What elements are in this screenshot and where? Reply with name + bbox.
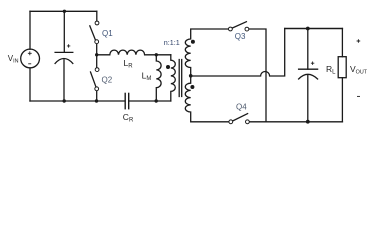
- switch Q1 blade: [90, 26, 95, 40]
- switch Q3 blade: [232, 22, 246, 28]
- svg-text:Q4: Q4: [236, 103, 247, 112]
- transformer secondary upper winding: [185, 29, 230, 76]
- polarity dot secondary lower: [190, 85, 194, 89]
- wire bottom rail left of Cr: [30, 100, 125, 102]
- capacitor Cin curved plate: [55, 59, 73, 64]
- wire Q2 bottom lead: [96, 91, 98, 101]
- transformer secondary lower winding: [185, 76, 230, 122]
- wire RL bottom lead: [341, 78, 343, 122]
- symbol Vout minus: [357, 95, 360, 97]
- inductor LM: [156, 55, 161, 101]
- svg-text:LM: LM: [142, 71, 152, 83]
- terminal Q4 left: [229, 120, 233, 124]
- svg-text:RL: RL: [326, 64, 336, 76]
- terminal Q1 bottom: [95, 40, 99, 44]
- wire Vin bottom lead: [29, 68, 31, 101]
- resistor RL box: [338, 57, 346, 78]
- terminal Q4 right: [246, 120, 250, 124]
- wire Q3 output down to bottom rail: [249, 29, 266, 122]
- transformer core: [179, 60, 182, 97]
- node Q1-Q2 / LR junction: [95, 53, 98, 56]
- symbol Vin minus: [28, 63, 31, 65]
- symbol Vout plus: [357, 39, 361, 43]
- symbol input cap plus: [67, 44, 70, 47]
- node LR / LM / primary top: [155, 53, 158, 56]
- node top rail / input cap: [63, 10, 66, 13]
- wire output top rail: [285, 28, 343, 30]
- wire Q1 top stub: [96, 11, 98, 21]
- wire top rail: [30, 10, 97, 12]
- wire input cap bottom lead: [63, 60, 65, 101]
- svg-text:CR: CR: [123, 112, 134, 124]
- capacitor CR right plate: [128, 93, 130, 108]
- wire Q1 to mid junction: [96, 44, 98, 68]
- svg-text:Q3: Q3: [235, 32, 246, 41]
- inductor LR: [97, 50, 171, 55]
- wire center tap with hop over Q3 drop: [191, 29, 285, 77]
- svg-text:LR: LR: [124, 58, 134, 70]
- terminal Q3 left: [229, 27, 233, 31]
- source Vin: [21, 49, 40, 68]
- polarity dot primary: [166, 65, 170, 69]
- wire bottom rail right of Cr: [129, 100, 171, 102]
- symbol Vin plus: [28, 51, 32, 55]
- node bottom rail / LM: [155, 99, 158, 102]
- switch Q4 blade: [233, 114, 248, 121]
- wire output cap top lead: [307, 29, 309, 70]
- wire Q4 output to load: [249, 121, 342, 123]
- svg-text:Q1: Q1: [102, 29, 113, 38]
- node bottom rail / input cap: [62, 99, 65, 102]
- capacitor CR left plate: [124, 93, 126, 108]
- svg-text:Q2: Q2: [102, 76, 113, 85]
- transformer primary winding: [171, 55, 176, 101]
- node output rail / cap bottom: [306, 120, 310, 124]
- svg-text:VOUT: VOUT: [350, 64, 368, 75]
- node bottom rail / Q2: [95, 99, 98, 102]
- wire output cap bottom lead: [307, 76, 309, 122]
- node secondary center tap: [189, 74, 193, 78]
- wire input cap top lead: [63, 11, 65, 52]
- switch Q2 blade: [91, 72, 97, 87]
- terminal Q3 right: [245, 27, 249, 31]
- wire RL top lead: [341, 29, 343, 57]
- capacitor Cout curved plate: [299, 74, 318, 79]
- terminal Q1 top: [95, 21, 99, 25]
- node output rail / cap top: [306, 27, 310, 31]
- wire Vin top lead: [29, 11, 31, 49]
- polarity dot secondary upper: [191, 40, 195, 44]
- symbol output cap plus: [311, 62, 314, 65]
- svg-text:n:1:1: n:1:1: [164, 38, 180, 47]
- terminal Q2 bottom: [95, 87, 99, 91]
- capacitor Cout top plate: [299, 68, 318, 70]
- capacitor Cin top plate: [55, 51, 73, 53]
- svg-text:VIN: VIN: [8, 54, 19, 64]
- terminal Q2 top: [95, 68, 99, 72]
